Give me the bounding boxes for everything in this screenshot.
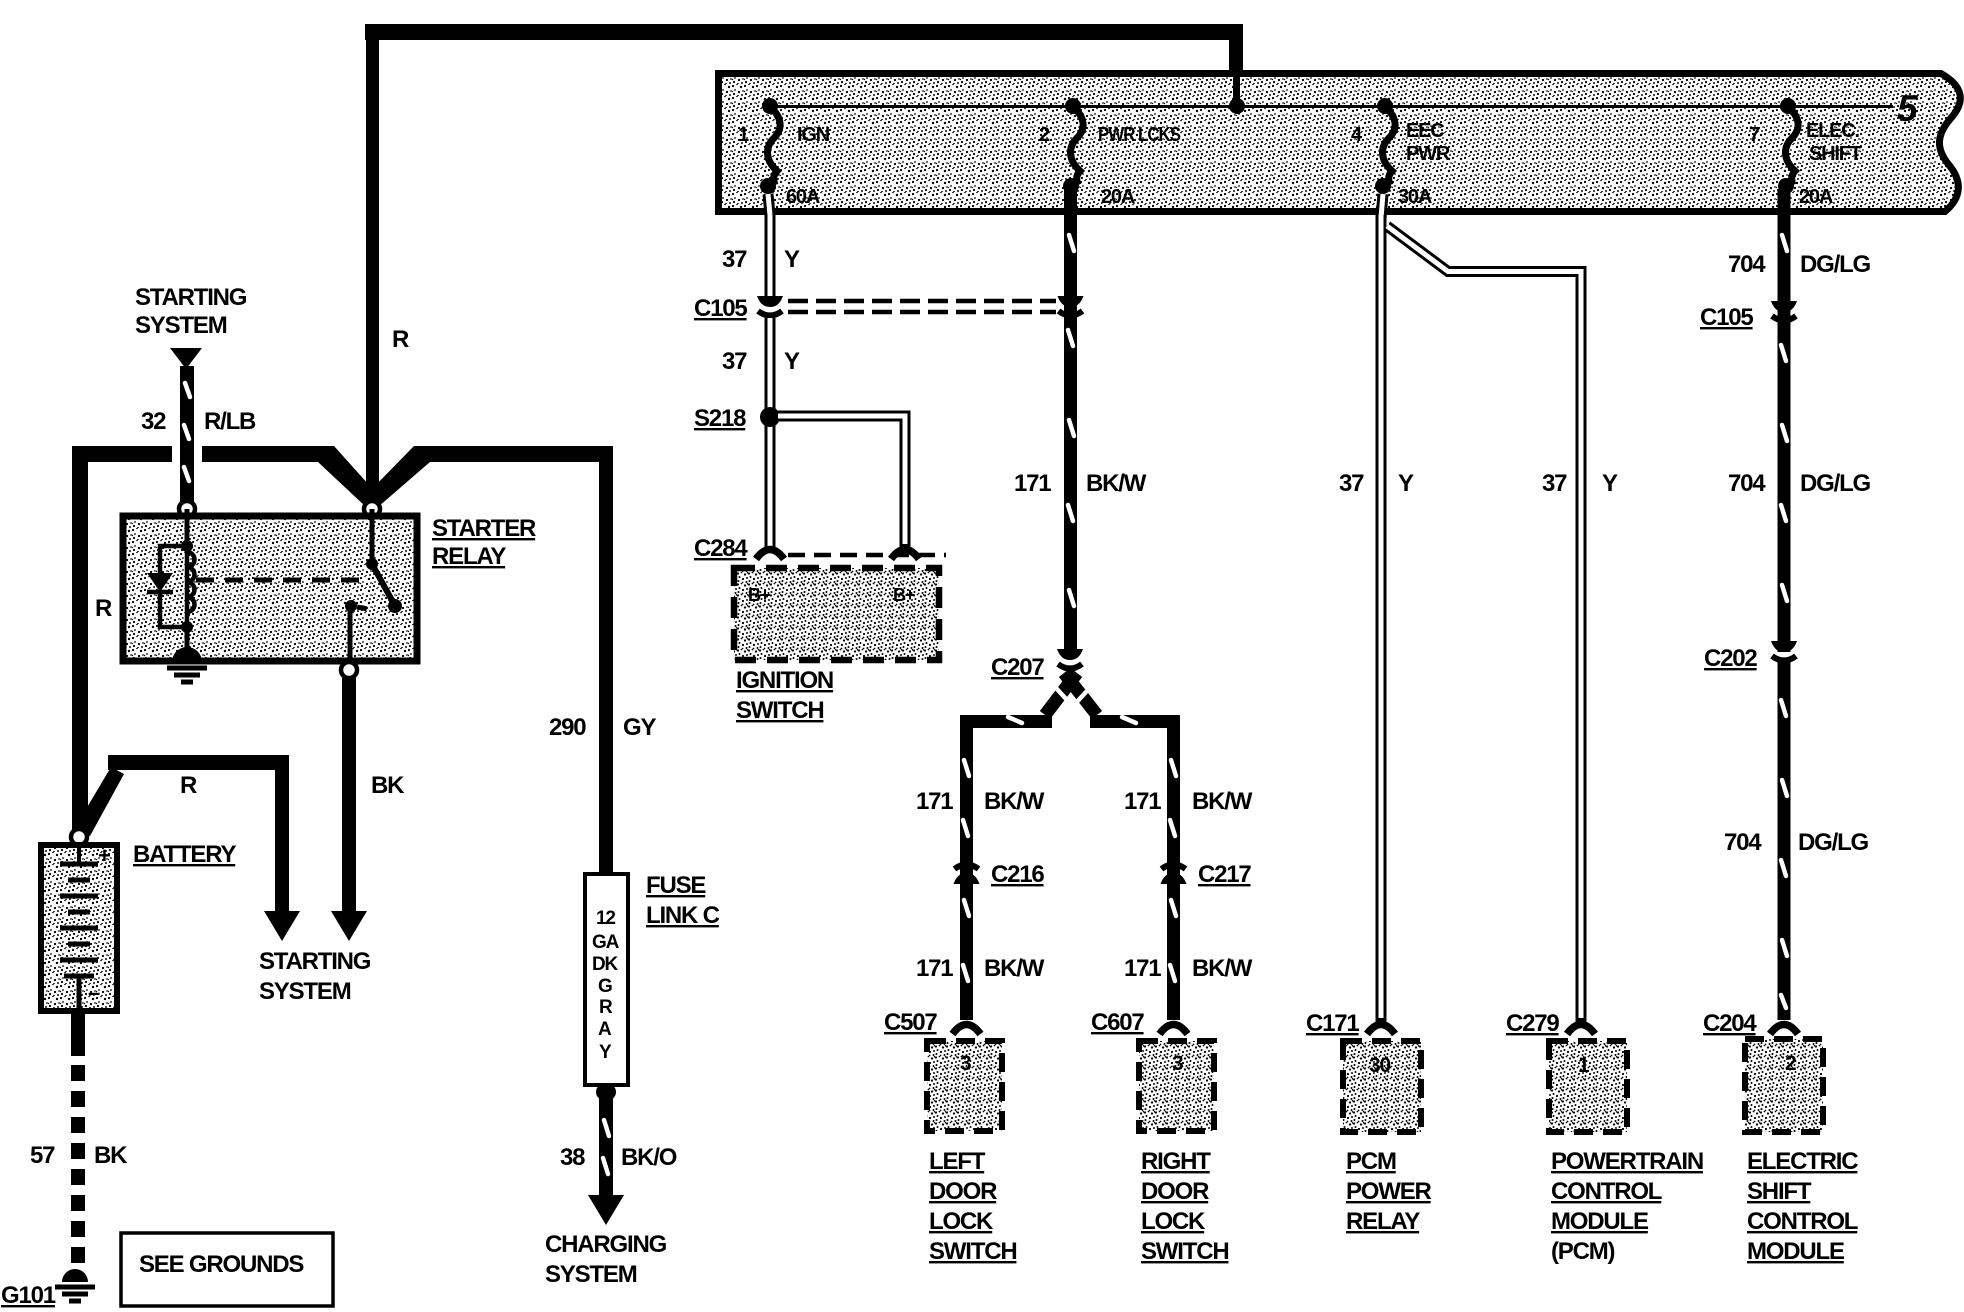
relay switch <box>345 509 402 664</box>
svg-text:C207: C207 <box>991 654 1044 681</box>
svg-text:GA: GA <box>592 932 620 953</box>
svg-text:SWITCH: SWITCH <box>1141 1238 1228 1265</box>
label 171 BK/W right lower <box>1124 955 1253 982</box>
svg-text:PWR: PWR <box>1406 143 1451 165</box>
svg-text:C105: C105 <box>694 295 747 322</box>
svg-text:171: 171 <box>916 955 953 982</box>
svg-text:SHIFT: SHIFT <box>1809 143 1862 165</box>
svg-text:RELAY: RELAY <box>1346 1208 1420 1235</box>
svg-text:C507: C507 <box>884 1009 937 1036</box>
wire 171 BK/W fuse2 to C207 <box>1014 190 1147 650</box>
svg-text:SWITCH: SWITCH <box>736 697 823 724</box>
starter relay box <box>123 516 417 661</box>
svg-text:57: 57 <box>30 1142 55 1169</box>
svg-text:Y: Y <box>784 246 800 273</box>
node fuse panel feed junction <box>1229 73 1245 114</box>
connector C279 <box>1567 1025 1595 1035</box>
label RIGHT DOOR LOCK SWITCH <box>1141 1148 1228 1265</box>
wire 32 R/LB striped <box>141 366 256 506</box>
connector C284 left pin <box>756 550 784 560</box>
svg-text:LOCK: LOCK <box>929 1208 994 1235</box>
connector C507 <box>953 1025 981 1035</box>
svg-text:B+: B+ <box>748 585 770 605</box>
svg-text:MODULE: MODULE <box>1551 1208 1649 1235</box>
svg-text:171: 171 <box>1124 955 1161 982</box>
svg-text:B+: B+ <box>893 585 915 605</box>
terminal right of starter relay <box>364 501 380 517</box>
svg-text:RIGHT: RIGHT <box>1141 1148 1211 1175</box>
connector C202 <box>1771 641 1797 661</box>
svg-text:BK/W: BK/W <box>1086 470 1147 497</box>
svg-text:SWITCH: SWITCH <box>929 1238 1016 1265</box>
svg-text:IGNITION: IGNITION <box>736 667 833 694</box>
PCM power relay box <box>1343 1041 1421 1132</box>
svg-text:30A: 30A <box>1398 186 1432 208</box>
wire 37 Y fuse1 to ignition switch <box>722 194 800 298</box>
svg-text:Y: Y <box>784 348 800 375</box>
svg-text:C202: C202 <box>1704 645 1757 672</box>
svg-text:SYSTEM: SYSTEM <box>259 978 351 1005</box>
label 171 BK/W left lower <box>916 955 1045 982</box>
svg-text:C607: C607 <box>1091 1009 1144 1036</box>
electric shift control module box <box>1745 1039 1823 1132</box>
svg-text:171: 171 <box>916 788 953 815</box>
label POWERTRAIN CONTROL MODULE (PCM) <box>1551 1148 1703 1265</box>
svg-text:5: 5 <box>1897 88 1919 129</box>
svg-text:EEC: EEC <box>1406 120 1444 142</box>
svg-text:12: 12 <box>596 908 615 929</box>
svg-text:C216: C216 <box>991 861 1044 888</box>
svg-text:DK: DK <box>592 954 619 975</box>
label 704 DG/LG lower <box>1724 829 1869 856</box>
svg-text:BATTERY: BATTERY <box>133 841 236 868</box>
svg-text:BK/W: BK/W <box>984 788 1045 815</box>
connector C216 <box>954 865 980 885</box>
svg-text:STARTING: STARTING <box>259 948 371 975</box>
label charging system <box>545 1231 667 1288</box>
svg-text:2: 2 <box>1785 1052 1796 1075</box>
svg-text:DG/LG: DG/LG <box>1798 829 1869 856</box>
svg-text:BK: BK <box>371 772 405 799</box>
relay ground <box>167 627 207 682</box>
svg-text:SYSTEM: SYSTEM <box>135 312 227 339</box>
svg-text:PWR LCKS: PWR LCKS <box>1098 124 1181 146</box>
ignition switch box <box>734 568 939 660</box>
wire R vertical to starter relay <box>366 40 379 508</box>
svg-text:Y: Y <box>599 1042 612 1063</box>
wire 57 BK battery to ground <box>30 1011 128 1266</box>
bus line inside fuse panel <box>770 105 1893 108</box>
connector C171 <box>1367 1025 1395 1035</box>
svg-text:R: R <box>392 326 409 353</box>
wire 37 Y branch to PCM <box>1387 226 1618 1022</box>
svg-text:Y: Y <box>1398 470 1414 497</box>
svg-text:38: 38 <box>560 1144 585 1171</box>
svg-text:SYSTEM: SYSTEM <box>545 1261 637 1288</box>
svg-text:BK/W: BK/W <box>1192 788 1253 815</box>
svg-text:BK/W: BK/W <box>1192 955 1253 982</box>
label 171 BK/W right branch <box>1124 788 1253 815</box>
svg-text:DOOR: DOOR <box>1141 1178 1209 1205</box>
svg-text:LEFT: LEFT <box>929 1148 986 1175</box>
svg-text:LINK C: LINK C <box>646 902 720 929</box>
connector C284 right pin <box>891 550 919 560</box>
battery <box>41 843 117 1011</box>
svg-text:32: 32 <box>141 408 166 435</box>
svg-text:BK/W: BK/W <box>984 955 1045 982</box>
svg-text:R: R <box>95 595 112 622</box>
left door lock switch box <box>927 1041 1002 1131</box>
svg-text:SEE GROUNDS: SEE GROUNDS <box>139 1251 304 1278</box>
svg-text:37: 37 <box>722 348 747 375</box>
svg-text:37: 37 <box>1542 470 1567 497</box>
connector C217 <box>1161 865 1187 885</box>
wire split at C207 <box>963 673 1176 1020</box>
wire 38 BK/O to charging system <box>560 1083 677 1225</box>
wire 37 Y fuse4 to PCM power relay <box>1339 194 1414 1022</box>
label LEFT DOOR LOCK SWITCH <box>929 1148 1016 1265</box>
svg-text:Y: Y <box>1602 470 1618 497</box>
svg-text:C171: C171 <box>1306 1010 1359 1037</box>
fuse F7 ELEC SHIFT 20A <box>1749 98 1862 208</box>
svg-text:STARTER: STARTER <box>432 515 536 542</box>
label 704 DG/LG middle <box>1728 470 1871 497</box>
label 171 BK/W left branch <box>916 788 1045 815</box>
label PCM POWER RELAY <box>1346 1148 1432 1235</box>
svg-text:R: R <box>599 997 613 1018</box>
svg-text:R: R <box>180 772 197 799</box>
svg-text:704: 704 <box>1728 251 1766 278</box>
svg-text:704: 704 <box>1728 470 1766 497</box>
connector C204 <box>1770 1025 1798 1035</box>
svg-text:G101: G101 <box>1 1282 56 1309</box>
label starting system (bottom) <box>259 948 371 1005</box>
label FUSE LINK C <box>646 872 720 929</box>
svg-text:2: 2 <box>1039 124 1050 146</box>
svg-text:704: 704 <box>1724 829 1762 856</box>
wire battery to relay horizontal <box>72 446 327 462</box>
fuse link C <box>585 874 628 1085</box>
svg-text:290: 290 <box>549 714 586 741</box>
wire 704 DG/LG fuse7 to elec shift module <box>1778 190 1791 1020</box>
svg-text:171: 171 <box>1014 470 1051 497</box>
label 704 DG/LG upper <box>1728 251 1871 278</box>
svg-text:BK: BK <box>94 1142 128 1169</box>
svg-text:CHARGING: CHARGING <box>545 1231 667 1258</box>
svg-text:1: 1 <box>1578 1054 1590 1077</box>
wire BK to starting system <box>331 678 405 941</box>
fuse F1 IGN 60A <box>738 98 830 208</box>
wire battery left vertical <box>72 446 88 831</box>
svg-text:A: A <box>598 1019 612 1040</box>
svg-text:BK/O: BK/O <box>621 1144 677 1171</box>
svg-text:LOCK: LOCK <box>1141 1208 1206 1235</box>
terminal battery positive <box>71 829 87 845</box>
svg-text:C105: C105 <box>1700 304 1753 331</box>
relay diode <box>147 546 187 627</box>
svg-text:3: 3 <box>1172 1052 1183 1075</box>
powertrain control module box <box>1549 1041 1627 1132</box>
see grounds box <box>121 1233 333 1306</box>
connector C105 (on wire 171) <box>1058 296 1084 316</box>
connector C607 <box>1160 1025 1188 1035</box>
svg-text:R/LB: R/LB <box>204 408 256 435</box>
relay coil <box>181 509 195 633</box>
splice S218 <box>694 405 780 432</box>
svg-text:37: 37 <box>722 246 747 273</box>
label STARTER RELAY <box>432 515 536 570</box>
svg-text:–: – <box>88 980 100 1005</box>
svg-text:DG/LG: DG/LG <box>1800 251 1871 278</box>
svg-text:POWERTRAIN: POWERTRAIN <box>1551 1148 1703 1175</box>
svg-text:G: G <box>598 976 612 997</box>
wire V into relay right terminal <box>318 446 613 507</box>
label starting system (top) <box>135 284 247 339</box>
wire 37 Y below C105 <box>722 318 800 550</box>
connector C105 (left, on wire 37) <box>757 296 783 316</box>
svg-text:C284: C284 <box>694 535 748 562</box>
svg-text:ELEC.: ELEC. <box>1806 120 1860 142</box>
svg-text:7: 7 <box>1749 124 1760 146</box>
svg-text:C217: C217 <box>1198 861 1251 888</box>
svg-text:GY: GY <box>623 714 656 741</box>
svg-text:C279: C279 <box>1506 1010 1559 1037</box>
wire 290 GY to fuse link <box>549 446 656 874</box>
ground G101 <box>1 1269 95 1309</box>
svg-text:1: 1 <box>738 124 749 146</box>
svg-text:30: 30 <box>1369 1054 1390 1077</box>
fuse F2 PWR LCKS 20A <box>1039 98 1181 208</box>
svg-text:S218: S218 <box>694 405 746 432</box>
svg-text:171: 171 <box>1124 788 1161 815</box>
C105 dashed connector line <box>788 301 1056 312</box>
svg-text:IGN: IGN <box>797 124 830 146</box>
wire R to starting system <box>73 755 300 941</box>
svg-text:POWER: POWER <box>1346 1178 1432 1205</box>
svg-text:STARTING: STARTING <box>135 284 247 311</box>
svg-text:20A: 20A <box>1799 186 1833 208</box>
terminal bottom of starter relay <box>341 662 357 678</box>
wire battery feed top horizontal R <box>365 24 1243 73</box>
C284 dashed connector line <box>788 553 946 558</box>
svg-text:PCM: PCM <box>1346 1148 1396 1175</box>
svg-text:ELECTRIC: ELECTRIC <box>1747 1148 1858 1175</box>
svg-text:(PCM): (PCM) <box>1551 1238 1615 1265</box>
svg-text:DG/LG: DG/LG <box>1800 470 1871 497</box>
fuse panel box <box>719 74 1961 212</box>
svg-text:CONTROL: CONTROL <box>1551 1178 1662 1205</box>
connector C105 (right, on wire 704) <box>1771 301 1797 321</box>
terminal left of starter relay <box>179 501 195 517</box>
svg-text:37: 37 <box>1339 470 1364 497</box>
svg-text:20A: 20A <box>1101 186 1135 208</box>
svg-text:MODULE: MODULE <box>1747 1238 1845 1265</box>
svg-text:RELAY: RELAY <box>432 543 506 570</box>
svg-text:+: + <box>98 843 110 868</box>
label ELECTRIC SHIFT CONTROL MODULE <box>1747 1148 1858 1265</box>
svg-text:FUSE: FUSE <box>646 872 706 899</box>
relay internal dashed link <box>196 578 360 583</box>
svg-text:C204: C204 <box>1703 1010 1757 1037</box>
fuse F4 EEC PWR 30A <box>1351 98 1451 208</box>
svg-text:DOOR: DOOR <box>929 1178 997 1205</box>
svg-text:3: 3 <box>960 1052 971 1075</box>
svg-text:60A: 60A <box>786 186 820 208</box>
wire S218 branch to C284 <box>778 416 905 548</box>
label IGNITION SWITCH <box>736 667 833 724</box>
right door lock switch box <box>1139 1041 1214 1131</box>
connector C207 <box>1057 649 1083 669</box>
svg-text:SHIFT: SHIFT <box>1747 1178 1812 1205</box>
arrow from starting system <box>170 348 202 369</box>
svg-text:CONTROL: CONTROL <box>1747 1208 1858 1235</box>
